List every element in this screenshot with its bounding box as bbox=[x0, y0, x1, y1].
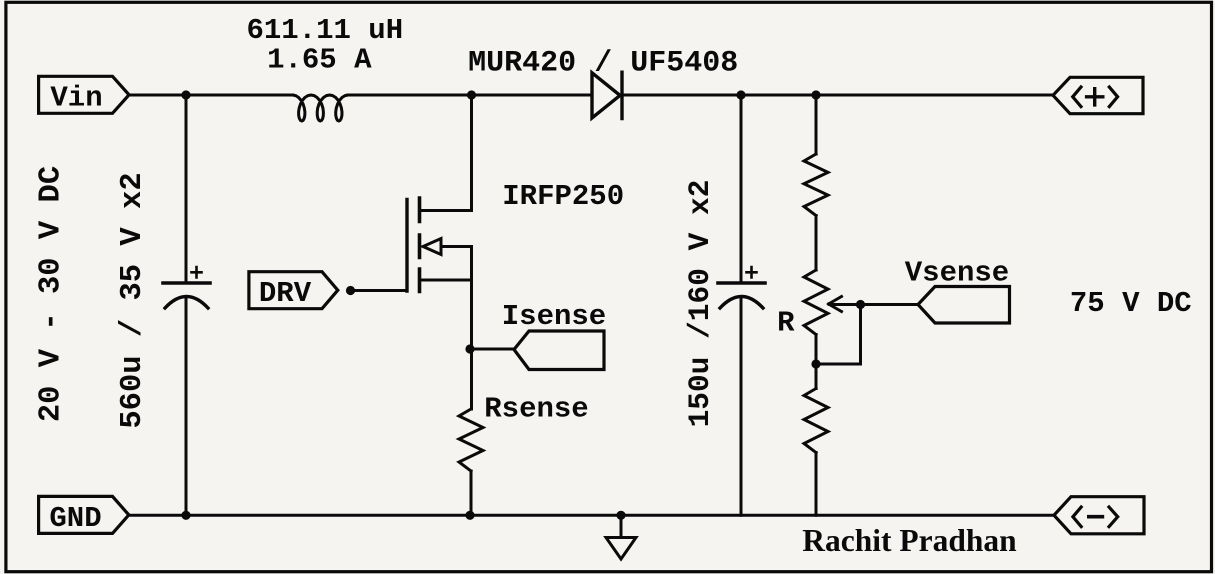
wire bottom rail bbox=[129, 514, 1054, 517]
junction dot ground bbox=[616, 511, 625, 520]
transistor Q1 source lead bbox=[420, 279, 472, 282]
label (-) bbox=[1073, 507, 1118, 527]
svg-text:75 V DC: 75 V DC bbox=[1070, 287, 1192, 320]
svg-text:Rsense: Rsense bbox=[484, 393, 588, 426]
svg-text:Isense: Isense bbox=[502, 300, 606, 333]
svg-text:Rachit Pradhan: Rachit Pradhan bbox=[802, 523, 1017, 558]
wire input cap branch bbox=[185, 95, 188, 515]
inductor L1 611.11uH bbox=[293, 95, 349, 121]
wire wiper jog down bbox=[816, 305, 861, 365]
potentiometer wiper arrow bbox=[829, 297, 842, 312]
port tag GND bbox=[39, 496, 129, 533]
port tag (-) bbox=[1054, 497, 1144, 534]
junction dot wiper bbox=[856, 300, 865, 309]
wire divider branch bbox=[815, 95, 818, 515]
port tag Isense bbox=[514, 331, 604, 370]
capacitor C2 150u, plates bbox=[718, 281, 765, 285]
transistor Q1 drain lead bbox=[420, 209, 472, 212]
port tag (+) bbox=[1053, 77, 1143, 113]
junction dot Rsense bottom bbox=[465, 511, 474, 520]
svg-text:Vsense: Vsense bbox=[905, 257, 1009, 290]
transistor Q1 body-diode arrow bbox=[423, 239, 441, 255]
capacitor C1 plus sign bbox=[192, 267, 202, 278]
resistor Rsense bbox=[459, 409, 483, 471]
port tag DRV bbox=[249, 272, 338, 309]
junction dot C2 top bbox=[736, 90, 745, 99]
junction dot pot bottom bbox=[811, 359, 820, 368]
svg-text:1.65 A: 1.65 A bbox=[267, 44, 372, 77]
wire DRV to gate bbox=[351, 289, 408, 292]
capacitor C2 plus sign bbox=[747, 267, 757, 278]
wire output cap branch bbox=[740, 95, 743, 515]
wire wiper to Vsense bbox=[830, 303, 918, 306]
wire top rail bbox=[129, 94, 1053, 97]
resistor R1 (upper divider) bbox=[804, 154, 828, 216]
label (+) bbox=[1073, 87, 1118, 107]
svg-text:20 V - 30 V DC: 20 V - 30 V DC bbox=[35, 166, 69, 422]
potentiometer R bbox=[804, 270, 828, 335]
svg-text:611.11 uH: 611.11 uH bbox=[246, 14, 403, 47]
svg-text:Vin: Vin bbox=[50, 82, 102, 115]
svg-text:IRFP250: IRFP250 bbox=[502, 180, 624, 213]
port tag Vsense bbox=[918, 287, 1010, 324]
capacitor C1 560u, plates bbox=[163, 281, 210, 285]
transistor Q1 IRFP250 gate bar bbox=[405, 200, 408, 292]
junction dot DRV gate bbox=[346, 286, 355, 295]
ground symbol bbox=[606, 515, 636, 559]
transistor Q1 channel bars bbox=[418, 198, 422, 292]
junction dot drain top bbox=[467, 90, 476, 99]
wire Isense stub bbox=[470, 348, 514, 351]
junction dot divider top bbox=[811, 90, 820, 99]
diode D1 MUR420/UF5408 bbox=[592, 72, 622, 118]
resistor R2 (lower divider) bbox=[804, 389, 828, 453]
junction dot Vin/C1 top bbox=[181, 90, 190, 99]
wire source / Isense / Rsense branch bbox=[470, 247, 474, 516]
svg-text:R: R bbox=[777, 307, 795, 340]
svg-text:GND: GND bbox=[49, 502, 101, 535]
svg-text:150u /160 V x2: 150u /160 V x2 bbox=[683, 180, 717, 428]
port tag Vin bbox=[39, 76, 129, 113]
wire drain branch bbox=[470, 95, 473, 211]
junction dot C1 bottom bbox=[181, 511, 190, 520]
svg-text:DRV: DRV bbox=[259, 277, 312, 310]
svg-text:MUR420 / UF5408: MUR420 / UF5408 bbox=[468, 47, 738, 81]
svg-text:560u / 35 V x2: 560u / 35 V x2 bbox=[116, 172, 150, 428]
transistor Q1 body lead bbox=[441, 245, 472, 248]
junction dot Isense node bbox=[465, 344, 474, 353]
